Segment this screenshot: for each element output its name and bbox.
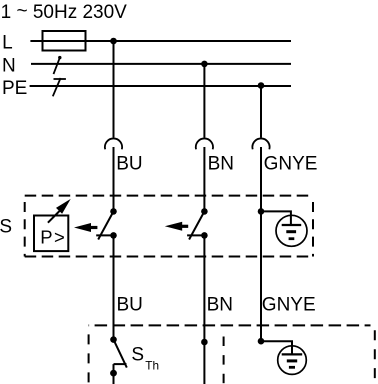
- wire branch to earth (lower): [261, 341, 292, 354]
- thermal switch S_Th on BU: [110, 340, 127, 384]
- mechanical link arrow to S2: [165, 222, 188, 231]
- node: N tap junction: [201, 61, 208, 68]
- switch contact S2 on BN: [187, 208, 208, 239]
- dashed enclosure S: [25, 196, 313, 257]
- wire BN into box S: [203, 147, 205, 211]
- wire BU drop from L: [113, 41, 115, 138]
- svg-text:1 ~ 50Hz 230V: 1 ~ 50Hz 230V: [1, 1, 128, 23]
- wire branch to earth (upper): [261, 211, 291, 225]
- node: GNYE junction in box S: [258, 208, 265, 215]
- wire GNYE into box S and through: [260, 147, 262, 341]
- wire BU below box S: [113, 235, 115, 339]
- node: BU junction in pump box: [110, 336, 117, 343]
- switch contact S1 on BU: [96, 208, 117, 239]
- wire BU into box S: [113, 147, 115, 212]
- svg-text:BU: BU: [117, 295, 143, 316]
- mechanical link arrow to S1: [74, 223, 97, 232]
- svg-text:BN: BN: [208, 153, 234, 174]
- wire BN drop from N: [203, 64, 205, 138]
- pressure switch actuator P> box: [34, 216, 68, 252]
- conductor mark on N (slash): [54, 56, 62, 74]
- svg-text:N: N: [2, 55, 16, 76]
- svg-text:GNYE: GNYE: [262, 295, 316, 316]
- wire L (phase) horizontal: [30, 40, 291, 42]
- svg-text:S: S: [0, 216, 12, 237]
- earth terminal E2 (circle with earth bars): [278, 346, 307, 375]
- node: GNYE junction in pump box: [258, 338, 265, 345]
- fuse F1 on line L: [43, 31, 86, 51]
- svg-text:S: S: [131, 345, 144, 366]
- connector socket BN: [196, 138, 213, 149]
- wire N (neutral) horizontal: [31, 63, 291, 65]
- svg-text:P>: P>: [40, 227, 66, 248]
- node: L tap junction: [110, 38, 117, 45]
- svg-text:PE: PE: [2, 78, 27, 99]
- wire GNYE drop from PE: [260, 86, 262, 138]
- node: BN junction in pump box: [201, 339, 208, 346]
- svg-text:BU: BU: [116, 153, 142, 174]
- actuator arrow from P> box: [48, 199, 71, 223]
- svg-text:GNYE: GNYE: [264, 153, 318, 174]
- svg-text:L: L: [2, 32, 13, 53]
- svg-text:BN: BN: [207, 295, 233, 316]
- connector socket GNYE: [252, 138, 269, 149]
- node: PE tap junction: [258, 82, 265, 89]
- label S_Th: [131, 345, 159, 373]
- earth terminal E1 (circle with earth bars): [276, 215, 307, 246]
- dashed enclosure pump unit: [89, 325, 375, 384]
- wire BN below box S: [203, 235, 205, 384]
- conductor mark on PE (slash with bar): [53, 78, 66, 96]
- svg-text:Th: Th: [145, 358, 159, 372]
- connector socket BU: [105, 138, 122, 149]
- wire PE (protective earth) horizontal: [30, 85, 291, 87]
